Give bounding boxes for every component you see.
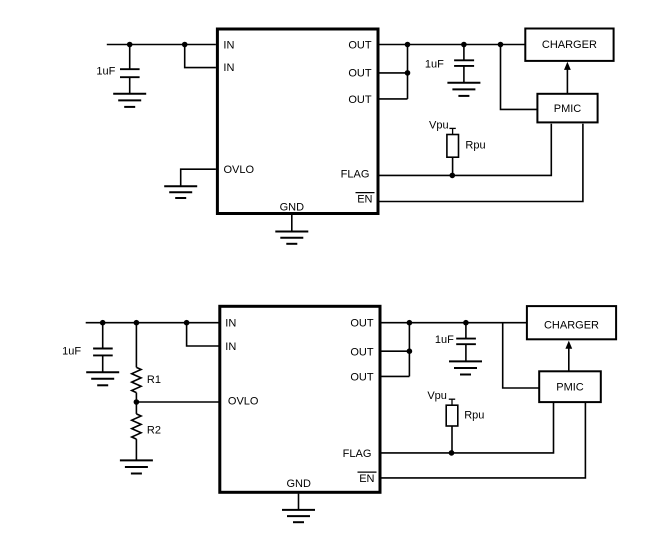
svg-text:FLAG: FLAG — [343, 448, 372, 460]
wire OUT to PMIC (bottom) — [503, 323, 540, 388]
svg-text:Rpu: Rpu — [465, 140, 485, 152]
wire arrow PMIC to CHARGER (top) — [564, 62, 571, 94]
junction at C2 (top out) — [461, 42, 467, 48]
value label Rpu (bottom) — [464, 410, 484, 422]
svg-text:CHARGER: CHARGER — [542, 39, 597, 51]
svg-text:OUT: OUT — [348, 39, 372, 51]
svg-text:PMIC: PMIC — [554, 103, 582, 115]
junction at IN2 branch (top input) — [182, 42, 188, 48]
ground (under R2) — [120, 460, 153, 473]
svg-text:EN: EN — [357, 193, 372, 205]
wire OUT pin2 (bottom) — [382, 350, 410, 352]
svg-text:OUT: OUT — [348, 94, 372, 106]
svg-text:GND: GND — [280, 201, 305, 213]
value label 1uF (bottom input cap) — [62, 345, 81, 357]
svg-text:FLAG: FLAG — [341, 169, 370, 181]
pin label GND (bottom IC) — [286, 478, 311, 490]
wire GND pin to ground (bottom) — [298, 494, 300, 510]
svg-text:OVLO: OVLO — [228, 396, 259, 408]
ground (under top input cap) — [113, 94, 146, 107]
pin label OUT (top IC pin out1) — [348, 39, 372, 51]
svg-text:1uF: 1uF — [435, 334, 454, 346]
svg-text:OUT: OUT — [350, 372, 374, 384]
pin label GND (top IC) — [280, 201, 305, 213]
wire OVLO to ground (top) — [181, 169, 216, 186]
svg-text:OVLO: OVLO — [224, 164, 255, 176]
ground (top IC GND) — [275, 232, 308, 244]
svg-text:GND: GND — [286, 478, 311, 490]
svg-text:IN: IN — [225, 318, 236, 330]
pin label OUT (bottom IC pin out2) — [350, 346, 374, 358]
pin label IN (bottom IC pin 1) — [225, 318, 236, 330]
block CHARGER (bottom) — [527, 306, 616, 339]
wire OUT2/OUT3 tie (bottom) — [408, 323, 410, 377]
power tap Vpu (top) — [449, 128, 455, 134]
capacitor C2 1uF (top output) — [454, 45, 474, 83]
junction at C1 (top input) — [127, 42, 133, 48]
block PMIC (bottom) — [539, 371, 601, 402]
junction at R1 (bottom input) — [134, 320, 140, 326]
wire input net (bottom) — [86, 322, 219, 324]
op-amp U2 (bottom IC body) — [220, 306, 380, 492]
value label Rpu (top) — [465, 140, 485, 152]
value label 1uF (top input cap) — [96, 66, 115, 78]
svg-text:OUT: OUT — [350, 318, 374, 330]
junction at OUT2 (bottom) — [407, 348, 413, 354]
pin label OUT (top IC pin out3) — [348, 94, 372, 106]
wire EN to PMIC (top) — [380, 124, 583, 202]
svg-text:CHARGER: CHARGER — [544, 319, 599, 331]
pin label OUT (bottom IC pin out3) — [350, 372, 374, 384]
ground (under bottom input cap) — [86, 372, 119, 385]
capacitor C1 1uF (top input) — [120, 45, 140, 94]
block CHARGER (top) — [525, 29, 613, 61]
junction at PMIC branch (top out) — [498, 42, 504, 48]
wire OUT pin3 (bottom) — [382, 375, 410, 377]
wire OUT to PMIC (top) — [501, 45, 538, 110]
pin label IN (top IC pin 1) — [223, 39, 234, 51]
junction at FLAG (top) — [450, 173, 456, 179]
svg-text:R2: R2 — [147, 425, 161, 437]
value label 1uF (bottom output cap) — [435, 334, 454, 346]
junction at OUT branch (bottom) — [407, 320, 413, 326]
wire OUT net (bottom) — [382, 322, 527, 324]
pin label EN with overline (bottom IC) — [358, 472, 377, 485]
wire Rpu to FLAG net (bottom) — [451, 426, 453, 453]
svg-text:OUT: OUT — [350, 346, 374, 358]
wire Rpu to FLAG net (top) — [452, 157, 454, 175]
resistor R1 (bottom divider top) — [132, 323, 141, 402]
svg-text:Vpu: Vpu — [429, 119, 449, 131]
pin label OUT (bottom IC pin out1) — [350, 318, 374, 330]
junction at C4 (bottom out) — [463, 320, 469, 326]
pin label OVLO (top IC) — [224, 164, 255, 176]
ground (under top output cap) — [447, 83, 480, 96]
junction at FLAG (bottom) — [449, 450, 455, 456]
junction at C3 (bottom input) — [100, 320, 106, 326]
node label Vpu (top) — [429, 119, 449, 131]
wire OUT pin2 (top) — [380, 72, 408, 74]
resistor Rpu (bottom) — [446, 405, 458, 426]
pin label EN with overline (top IC) — [356, 193, 375, 206]
value label R2 — [147, 425, 161, 437]
capacitor C3 1uF (bottom input) — [93, 323, 113, 373]
pin label FLAG (bottom IC) — [343, 448, 372, 460]
value label 1uF (top output cap) — [425, 59, 444, 71]
wire GND pin to ground (top) — [291, 214, 293, 231]
svg-text:IN: IN — [225, 341, 236, 353]
junction at OVLO divider (bottom) — [134, 399, 140, 405]
pin label OVLO (bottom IC) — [228, 396, 259, 408]
block PMIC (top) — [537, 94, 597, 123]
svg-text:1uF: 1uF — [62, 345, 81, 357]
node label Vpu (bottom) — [427, 390, 447, 402]
svg-text:IN: IN — [223, 39, 234, 51]
wire FLAG to PMIC (bottom) — [382, 403, 554, 453]
capacitor C4 1uF (bottom output) — [456, 323, 476, 362]
svg-text:EN: EN — [359, 473, 374, 485]
pin label IN (top IC pin 2) — [223, 62, 234, 74]
pin label FLAG (top IC) — [341, 169, 370, 181]
svg-text:1uF: 1uF — [96, 66, 115, 78]
ground (bottom IC GND) — [282, 510, 315, 522]
junction at OUT branch (top) — [405, 42, 411, 48]
junction at IN2 branch (bottom input) — [184, 320, 190, 326]
svg-text:1uF: 1uF — [425, 59, 444, 71]
value label R1 — [147, 374, 161, 386]
svg-text:Rpu: Rpu — [464, 410, 484, 422]
wire input net (top) — [107, 44, 216, 46]
junction at OUT2 (top) — [405, 70, 411, 76]
wire OUT2/OUT3 tie (top) — [407, 45, 409, 99]
svg-text:IN: IN — [223, 62, 234, 74]
ground (under bottom output cap) — [449, 361, 482, 374]
wire to IN pin2 (bottom) — [187, 323, 219, 346]
op-amp U1 (top IC body) — [217, 29, 378, 214]
resistor R2 (bottom divider bottom) — [132, 402, 141, 460]
ground (top OVLO) — [164, 186, 197, 198]
resistor Rpu (top) — [447, 135, 459, 158]
wire to IN pin2 (top) — [185, 45, 216, 68]
wire OUT net (top) — [380, 44, 526, 46]
svg-text:Vpu: Vpu — [427, 390, 447, 402]
pin label IN (bottom IC pin 2) — [225, 341, 236, 353]
power tap Vpu (bottom) — [449, 399, 455, 405]
wire EN to PMIC (bottom) — [382, 403, 586, 478]
pin label OUT (top IC pin out2) — [348, 67, 372, 79]
svg-text:OUT: OUT — [348, 67, 372, 79]
svg-text:R1: R1 — [147, 374, 161, 386]
wire FLAG to PMIC (top) — [380, 124, 552, 176]
wire OUT pin3 (top) — [380, 98, 408, 100]
wire arrow PMIC to CHARGER (bottom) — [565, 341, 572, 372]
wire divider to OVLO pin (bottom) — [136, 401, 220, 403]
svg-text:PMIC: PMIC — [556, 382, 584, 394]
